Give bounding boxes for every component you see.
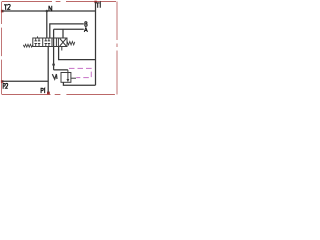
wire N vertical to valve xyxy=(46,11,48,38)
wire valve stub xyxy=(61,47,63,51)
port P2 boundary dot xyxy=(1,80,4,83)
label P2 xyxy=(3,84,5,89)
spring left xyxy=(23,44,33,47)
wire port B line xyxy=(50,24,84,38)
valve section2 blocked ports xyxy=(45,38,51,47)
label N xyxy=(49,6,52,11)
enclosure boundary left xyxy=(1,2,3,95)
wire A line drop to valve section4 xyxy=(62,29,64,38)
valve section divider 1 xyxy=(42,38,44,47)
label B xyxy=(85,22,87,26)
relief valve spring xyxy=(52,74,57,79)
relief valve pilot stub xyxy=(71,77,76,79)
port P1 boundary dot xyxy=(47,92,50,95)
relief valve arrow xyxy=(67,70,69,79)
spring right xyxy=(67,42,75,45)
label A xyxy=(84,28,87,32)
enclosure boundary right xyxy=(116,2,118,95)
port T1 boundary dot xyxy=(94,1,96,3)
wire valve tank drop to T1 xyxy=(59,47,96,60)
wire relief feed elbow xyxy=(54,69,68,71)
label T1 xyxy=(96,3,99,8)
valve section1 top stub xyxy=(37,36,39,38)
wire port A line xyxy=(54,28,84,30)
relief valve outlet to tank rail xyxy=(63,82,95,85)
wire P1 vertical from valve to port xyxy=(47,47,49,93)
wire A drop through valve to relief feed xyxy=(53,29,55,70)
node N junction dot xyxy=(46,10,49,13)
valve V1 directional control body xyxy=(33,38,67,47)
valve section1 blocked ports xyxy=(34,38,40,47)
label T2 xyxy=(4,5,7,10)
node junction dot on relief feed xyxy=(52,63,55,66)
wire P2 line xyxy=(2,80,48,82)
valve section4 crossed flow xyxy=(57,38,59,47)
relief valve RV1 body xyxy=(61,73,71,83)
enclosure boundary bottom xyxy=(2,94,117,96)
label P1 xyxy=(41,88,43,93)
pilot dashed line loop xyxy=(69,68,91,77)
enclosure boundary top xyxy=(2,1,117,3)
wire T1 vertical xyxy=(95,2,97,85)
valve section divider 3 xyxy=(55,38,57,47)
valve section divider 2 xyxy=(51,38,53,47)
wire T2 to T1 top rail xyxy=(2,10,96,12)
port T2 boundary dot xyxy=(1,10,4,13)
